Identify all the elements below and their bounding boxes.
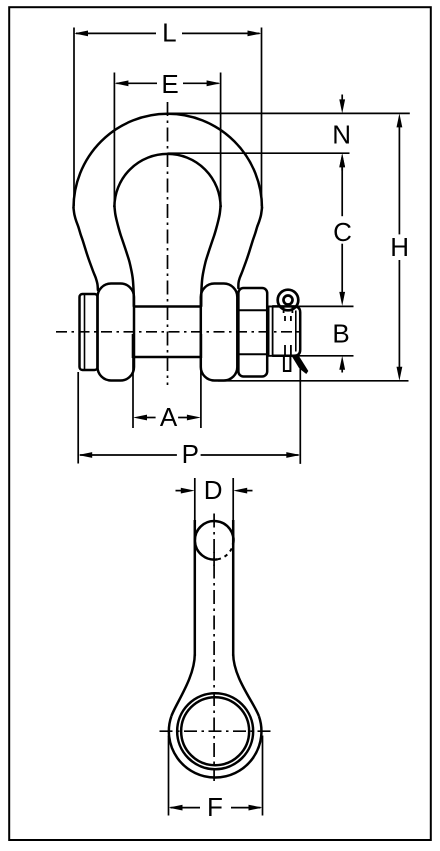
bolt head (80, 294, 98, 370)
dimension B (339, 356, 345, 373)
H bottom extension line (218, 380, 409, 382)
leader line bow inner top (crown) (168, 152, 350, 154)
left leg outer edge (74, 208, 98, 290)
dimension D (176, 478, 253, 520)
svg-text:F: F (207, 792, 223, 822)
svg-text:B: B (332, 318, 349, 348)
eye ring outer circle (177, 693, 253, 769)
vertical centerline (side view) (213, 514, 215, 782)
horizontal centerline (pin axis) (56, 331, 300, 333)
dimension L (74, 28, 262, 207)
left ear (lug) (98, 284, 135, 381)
eye outer arc (169, 716, 262, 777)
shank right edge (232, 520, 235, 656)
dimension N (339, 95, 345, 171)
bow cross-section circle (195, 521, 234, 566)
svg-text:P: P (182, 439, 199, 469)
svg-text:H: H (390, 232, 409, 262)
left flare into eye (171, 654, 194, 716)
bow outer arc (74, 114, 263, 208)
vertical centerline (front view) (167, 102, 169, 385)
dimension C (339, 153, 345, 306)
svg-text:D: D (204, 475, 223, 505)
hex nut (238, 288, 267, 377)
cotter pin straight leg (284, 356, 291, 371)
svg-text:C: C (333, 217, 352, 247)
cotter pin wire (hidden marks) (284, 307, 293, 356)
dimension H (397, 113, 403, 380)
right leg outer edge (238, 208, 262, 288)
pin end block (272, 306, 300, 355)
right ear (lug) (201, 284, 238, 381)
dimension E (114, 73, 220, 207)
svg-text:A: A (160, 402, 178, 432)
dimension F (169, 736, 263, 816)
bow inner arc (114, 154, 220, 207)
shank left edge (194, 520, 197, 656)
right leg inner edge (201, 206, 220, 306)
dimension A (133, 334, 201, 428)
pin bottom extension line (B datum bottom) (268, 355, 354, 357)
left leg inner edge (114, 206, 133, 306)
dimension P (78, 369, 300, 464)
cotter pin bent leg (292, 356, 309, 374)
eye ring inner circle (181, 697, 249, 765)
right flare into eye (233, 654, 259, 716)
horizontal centerline (eye) (160, 730, 272, 732)
svg-text:L: L (162, 18, 176, 48)
svg-text:N: N (332, 120, 351, 150)
pin shaft across jaw (134, 307, 201, 358)
svg-text:E: E (161, 69, 178, 99)
leader line bow outer top (N/H datum) (168, 112, 410, 114)
pin top extension line (B datum top) (268, 305, 354, 307)
cotter pin ring (278, 290, 299, 311)
washer (269, 306, 273, 355)
